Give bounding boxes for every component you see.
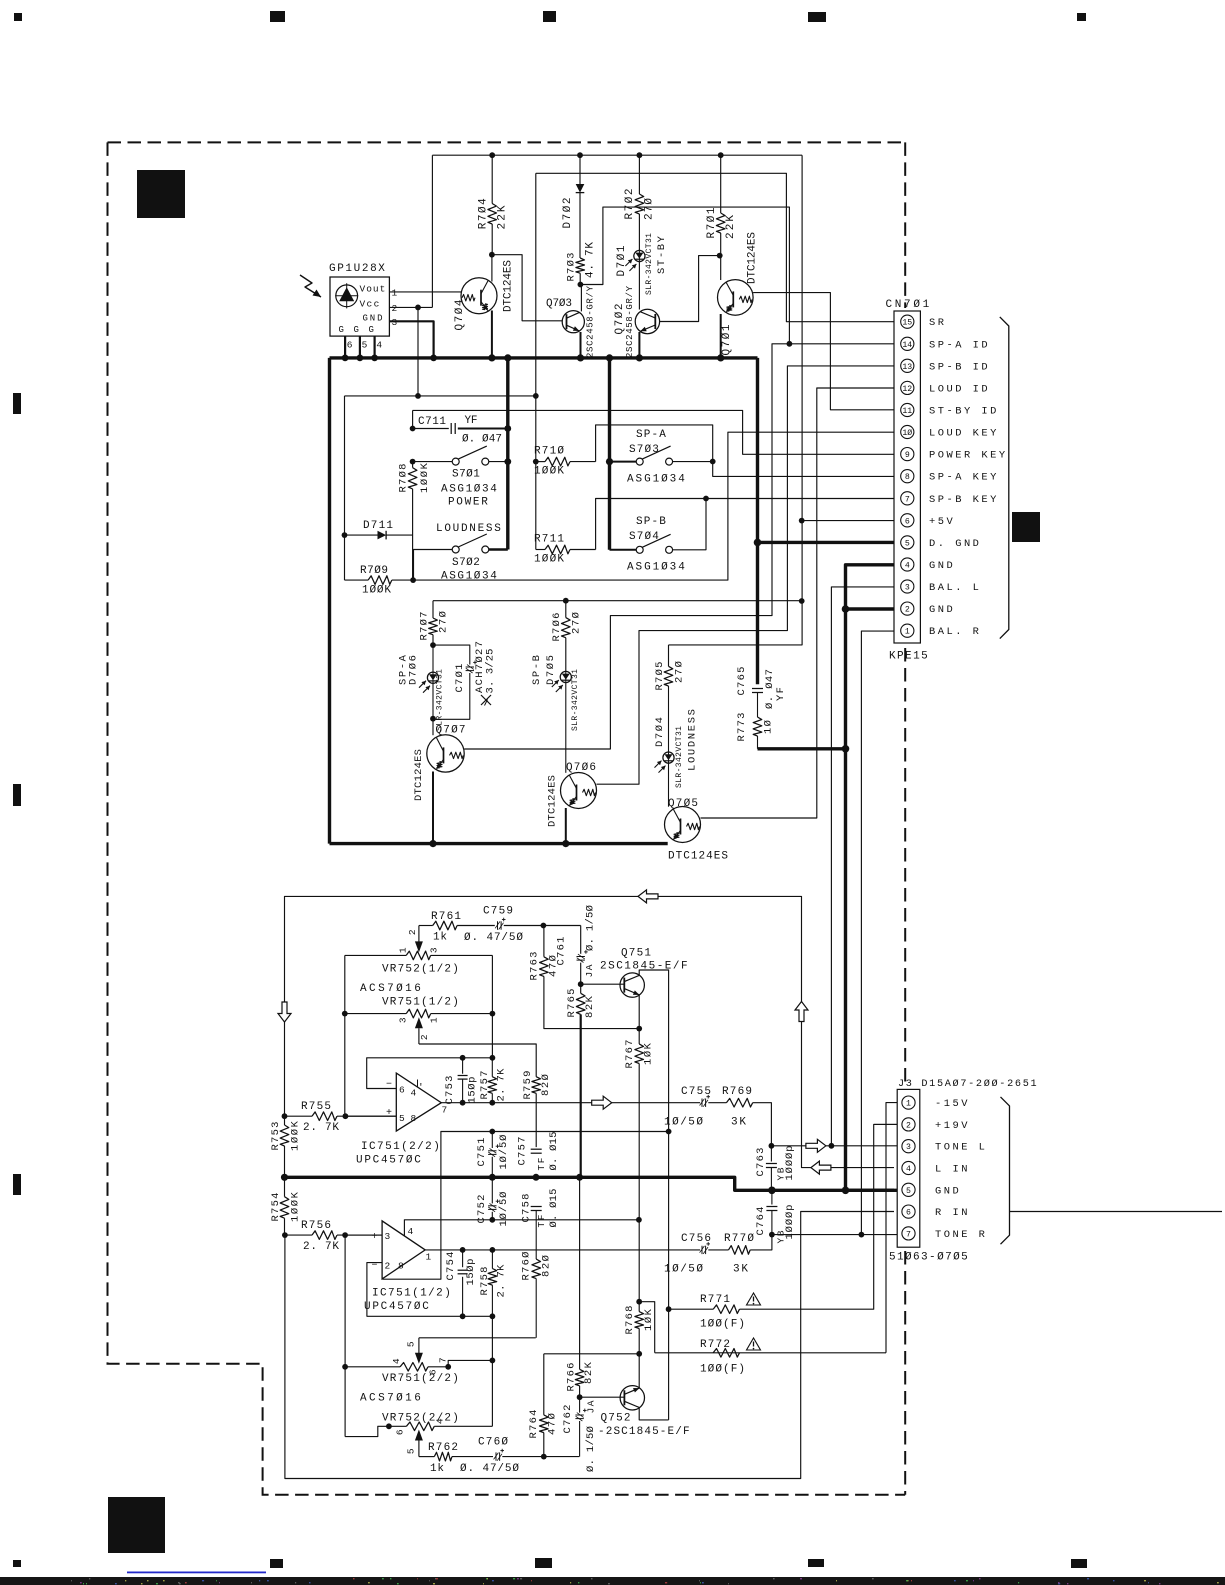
svg-text:47Ø: 47Ø — [547, 1413, 559, 1435]
svg-text:1ØØK: 1ØØK — [289, 1191, 301, 1222]
svg-text:Q7Ø4: Q7Ø4 — [454, 299, 466, 330]
resistor R771 100(F) fusible — [666, 1306, 672, 1312]
svg-text:C76Ø: C76Ø — [478, 1437, 509, 1449]
svg-text:R755: R755 — [301, 1101, 332, 1113]
potentiometer VR751(2/2) ACS7016 — [344, 1235, 346, 1437]
svg-text:82K: 82K — [583, 1361, 595, 1384]
arrow L IN left — [638, 890, 658, 903]
wire CN701 pin2 GND (thick) — [846, 607, 895, 610]
J3 cable bracket — [1001, 1097, 1010, 1244]
svg-text:KPE15: KPE15 — [889, 651, 929, 663]
svg-text:Vcc: Vcc — [360, 299, 380, 310]
wire -15V row left (C760 node to Q752 emitter) — [544, 1353, 639, 1355]
svg-text:27Ø: 27Ø — [674, 661, 686, 683]
svg-text:51Ø63-Ø7Ø5: 51Ø63-Ø7Ø5 — [889, 1252, 969, 1264]
wire +5V to CN701 pin6 (vertical x=802) — [669, 155, 803, 645]
capacitor C755 10/50 — [701, 1099, 703, 1107]
svg-text:ASG1Ø34: ASG1Ø34 — [441, 484, 498, 496]
svg-text:Ø. 47/5Ø: Ø. 47/5Ø — [460, 1463, 520, 1475]
svg-text:SP-B: SP-B — [531, 655, 543, 685]
wire analog GND bus (lower) — [285, 1177, 895, 1190]
svg-text:2: 2 — [407, 929, 418, 935]
resistor R760 820 — [532, 1259, 541, 1279]
wire TONE L row to J3 pin3 — [771, 1145, 897, 1147]
svg-text:6: 6 — [347, 340, 353, 351]
svg-text:4. 7K: 4. 7K — [585, 242, 597, 278]
wire SR net: Vcc pullup to CN701 pin15 — [536, 173, 894, 321]
resistor R757 2.7K — [491, 1058, 493, 1077]
svg-text:Q7Ø7: Q7Ø7 — [436, 725, 467, 737]
wire J3 pin5 GND thick — [846, 1189, 898, 1192]
node cross-couple y=1219.9 — [636, 1217, 642, 1223]
wire pot right rail — [491, 955, 493, 1057]
switch S704 ASG1034 SP-B — [610, 549, 637, 551]
wire rail x=492.4 down to VR752(2/2) — [491, 1316, 493, 1426]
svg-text:Q7Ø1: Q7Ø1 — [721, 324, 733, 355]
svg-text:GND: GND — [935, 1185, 961, 1197]
svg-text:82Ø: 82Ø — [540, 1074, 552, 1096]
svg-text:R768: R768 — [624, 1306, 636, 1335]
svg-text:R769: R769 — [722, 1086, 753, 1098]
svg-text:Vout: Vout — [360, 284, 386, 295]
arrow L IN up — [795, 1002, 808, 1022]
light-in arrow — [300, 275, 321, 297]
resistor R772 100(F) fusible — [713, 1349, 739, 1358]
svg-text:VR752(1/2): VR752(1/2) — [382, 964, 460, 976]
svg-text:LOUDNESS: LOUDNESS — [436, 523, 502, 535]
svg-text:8: 8 — [411, 1113, 417, 1124]
wire TONE R row to J3 pin7 — [772, 1234, 897, 1236]
svg-text:C756: C756 — [681, 1233, 712, 1245]
svg-text:S7Ø2: S7Ø2 — [452, 557, 481, 569]
svg-text:R7Ø3: R7Ø3 — [566, 253, 578, 282]
svg-text:+5V: +5V — [929, 516, 955, 528]
resistor R767 10K — [638, 1029, 640, 1044]
capacitor C761 0.1/50 JA — [580, 926, 582, 954]
svg-text:LOUDNESS: LOUDNESS — [686, 709, 698, 771]
svg-text:3: 3 — [905, 584, 910, 593]
svg-text:S7Ø4: S7Ø4 — [629, 531, 660, 543]
node L IN / R755 / R753 — [282, 1113, 288, 1119]
svg-text:11: 11 — [902, 407, 912, 416]
connector CN701 KPE15 — [894, 311, 920, 643]
svg-text:C711: C711 — [418, 416, 447, 428]
svg-text:3K: 3K — [733, 1264, 749, 1276]
photo IC GP1U28X — [330, 277, 389, 336]
capacitor C753 150p — [462, 1058, 464, 1074]
arrow TONE L out — [806, 1139, 826, 1152]
wire op2 pin8 V- loop via y=1131.5 — [383, 1132, 669, 1280]
LED D705 SP-B — [560, 671, 571, 682]
svg-text:2: 2 — [906, 1121, 911, 1130]
svg-text:27Ø: 27Ø — [438, 611, 450, 633]
svg-text:2. 7K: 2. 7K — [496, 1264, 508, 1298]
svg-text:6: 6 — [399, 1085, 405, 1096]
svg-text:ASG1Ø34: ASG1Ø34 — [441, 571, 498, 583]
potentiometer VR751(1/2) — [345, 1013, 406, 1015]
svg-text:Ø. Ø15: Ø. Ø15 — [548, 1189, 560, 1228]
svg-text:1ØØK: 1ØØK — [419, 462, 431, 493]
resistor R763 470 — [543, 926, 545, 957]
potentiometer VR752(1/2) ACS7016 — [345, 954, 406, 956]
svg-text:5: 5 — [399, 1113, 405, 1124]
svg-text:C764: C764 — [755, 1207, 767, 1236]
svg-text:Q751: Q751 — [621, 948, 652, 960]
CN701 cable bracket — [1000, 317, 1009, 639]
svg-text:G: G — [369, 325, 375, 335]
svg-text:G: G — [354, 325, 360, 335]
svg-text:7: 7 — [905, 495, 910, 504]
svg-text:15: 15 — [902, 319, 912, 328]
resistor R758 2.7K — [491, 1250, 493, 1269]
wire L IN loop (J3 pin4 to R755) — [285, 896, 895, 1167]
registration square bottom-left — [108, 1497, 165, 1553]
svg-text:8: 8 — [905, 473, 910, 482]
svg-text:-2SC1845-E/F: -2SC1845-E/F — [598, 1426, 690, 1438]
registration square top-left — [137, 170, 185, 218]
svg-text:R757: R757 — [479, 1071, 491, 1100]
svg-text:14: 14 — [902, 341, 912, 350]
wire GP1U28X pin3 GND — [389, 321, 433, 358]
LED D706 SP-A — [432, 645, 434, 672]
svg-text:ASG1Ø34: ASG1Ø34 — [627, 562, 686, 574]
resistor R754 100K — [284, 1177, 286, 1196]
svg-text:Q7Ø3: Q7Ø3 — [546, 298, 573, 310]
wire Q706 base to CN701 pin13 SP-B ID — [597, 366, 895, 784]
svg-text:1: 1 — [392, 288, 398, 299]
wire Q751 collector to rail x=668.6 — [639, 970, 668, 1420]
svg-text:TONE L: TONE L — [935, 1142, 987, 1154]
svg-text:7: 7 — [906, 1230, 911, 1239]
svg-text:5: 5 — [905, 539, 910, 548]
svg-text:D7Ø6: D7Ø6 — [407, 655, 419, 685]
wire S701 row to POWER KEY (pin9) — [412, 410, 414, 428]
LED D704 LOUDNESS — [663, 752, 674, 763]
transistor Q705 DTC124ES — [665, 807, 701, 843]
svg-text:R753: R753 — [270, 1122, 282, 1151]
svg-text:5: 5 — [362, 340, 368, 351]
wire x=418 Vcc drop — [417, 307, 419, 396]
switch S702 ASG1034 LOUDNESS — [414, 550, 453, 581]
svg-text:TONE R: TONE R — [935, 1229, 987, 1241]
wire +5V feed to LED resistors y=600.5 — [433, 600, 802, 602]
node R767 top — [636, 1026, 642, 1032]
node Q704 collector / R704 — [489, 252, 495, 258]
svg-text:ST-BY ID: ST-BY ID — [929, 406, 999, 418]
wire J3 pin2 +19V — [874, 1123, 898, 1125]
svg-text:4: 4 — [411, 1088, 417, 1099]
svg-text:C7Ø1: C7Ø1 — [454, 664, 466, 693]
resistor R703 4.7K — [576, 258, 585, 273]
svg-text:': ' — [418, 1082, 424, 1093]
wire SP-A/SP-B switch common x=609.5 — [608, 358, 611, 550]
svg-text:SLR-342VCT31: SLR-342VCT31 — [571, 669, 580, 731]
svg-text:TF: TF — [536, 1157, 547, 1170]
wire left branch to D711/R709 — [344, 396, 346, 580]
blue underline — [127, 1572, 266, 1574]
svg-text:DTC124ES: DTC124ES — [546, 775, 558, 827]
transistor Q706 DTC124ES — [561, 773, 597, 809]
svg-text:C759: C759 — [483, 906, 514, 918]
wire R704/Q704 to Q703 base — [492, 255, 562, 321]
svg-text:1ØØK: 1ØØK — [362, 585, 392, 597]
resistor R711 100K — [536, 549, 545, 551]
wire R773 to analog GND rail — [758, 747, 846, 750]
svg-text:-15V: -15V — [935, 1098, 970, 1110]
svg-text:22K: 22K — [497, 205, 509, 229]
svg-text:GND: GND — [929, 560, 955, 572]
resistor R710 100K — [536, 461, 545, 463]
wire R711 to S704 right / pin7 SP-B KEY — [596, 499, 894, 550]
node R707/D706/C701 — [430, 642, 436, 648]
svg-text:DTC124ES: DTC124ES — [668, 851, 729, 863]
transistor Q702 2SC2458-GR/Y — [638, 262, 640, 310]
svg-text:R756: R756 — [301, 1220, 332, 1232]
svg-text:6: 6 — [906, 1209, 911, 1218]
resistor R708 100K — [412, 462, 414, 468]
resistor R765 82K — [576, 993, 585, 1014]
resistor R702 270 (ST-BY LED) — [638, 155, 640, 194]
svg-text:1Ø/5Ø: 1Ø/5Ø — [664, 1117, 704, 1129]
resistor R707 270 — [432, 601, 434, 618]
wire feedback row to pot rail — [463, 1057, 493, 1059]
wire from J3 bracket to right edge — [1010, 1211, 1223, 1213]
resistor R764 470 — [543, 1354, 545, 1415]
node R IN / R756 / R754 — [282, 1232, 288, 1238]
svg-text:+: + — [372, 1232, 379, 1243]
svg-text:1Ø: 1Ø — [763, 720, 775, 734]
capacitor C751 10/50 — [491, 1132, 493, 1149]
resistor R762 1k — [419, 1456, 434, 1458]
svg-text:LOUD ID: LOUD ID — [929, 383, 990, 395]
svg-text:13: 13 — [902, 363, 912, 372]
svg-text:2SC1845-E/F: 2SC1845-E/F — [600, 961, 688, 973]
svg-text:3: 3 — [385, 1231, 391, 1242]
wire Q752 emitter up to -15V node — [638, 1354, 640, 1388]
svg-text:BAL. R: BAL. R — [929, 626, 981, 638]
svg-text:SP-A KEY: SP-A KEY — [929, 472, 999, 484]
wire Q705 base to CN701 pin12 LOUD ID — [701, 388, 895, 818]
svg-text:1: 1 — [906, 1100, 911, 1109]
svg-text:Ø. Ø47: Ø. Ø47 — [462, 434, 503, 446]
svg-text:3: 3 — [429, 947, 440, 953]
svg-text:BAL. L: BAL. L — [929, 582, 981, 594]
svg-text:R7Ø6: R7Ø6 — [551, 613, 563, 642]
svg-text:R759: R759 — [522, 1071, 534, 1100]
wire VR751(2/2) wiper row to C758 — [419, 1337, 536, 1339]
capacitor C765 0.047 YF — [752, 688, 763, 690]
resistor R759 820 — [532, 1077, 541, 1094]
svg-text:4: 4 — [905, 562, 910, 571]
capacitor C754 150p — [462, 1250, 464, 1267]
svg-text:R762: R762 — [428, 1442, 459, 1454]
svg-text:9: 9 — [905, 451, 910, 460]
svg-text:82K: 82K — [584, 995, 596, 1018]
svg-text:LOUD KEY: LOUD KEY — [929, 428, 999, 440]
capacitor C752 10/50 — [491, 1177, 493, 1203]
svg-text:Ø. Ø47: Ø. Ø47 — [764, 669, 776, 709]
svg-text:R7Ø1: R7Ø1 — [706, 207, 718, 238]
node D706/Q707 collector — [430, 716, 436, 722]
svg-text:4: 4 — [408, 1226, 414, 1237]
svg-text:2: 2 — [419, 1034, 430, 1040]
svg-text:SLR-342VCT31: SLR-342VCT31 — [675, 726, 684, 788]
wire R710 to S703 right / pin8 SP-A KEY — [596, 425, 894, 477]
wire -15V row right (to R772) — [655, 1352, 886, 1354]
svg-text:C754: C754 — [445, 1252, 457, 1281]
svg-text:5: 5 — [406, 1341, 417, 1347]
wire Q751 emitter to R767 — [638, 995, 640, 1029]
diode D711 — [345, 534, 378, 536]
svg-text:SLR-342VCT31: SLR-342VCT31 — [436, 669, 445, 731]
svg-text:SP-A ID: SP-A ID — [929, 339, 990, 351]
svg-text:Q7Ø6: Q7Ø6 — [566, 762, 597, 774]
svg-text:CN7Ø1: CN7Ø1 — [886, 299, 931, 311]
svg-text:C751: C751 — [476, 1138, 488, 1167]
svg-text:1: 1 — [429, 1017, 440, 1023]
wire vertical x=535.8 (Vcc pullup rail) — [535, 173, 537, 549]
svg-text:IC751(1/2): IC751(1/2) — [372, 1288, 452, 1300]
svg-text:1ØØK: 1ØØK — [289, 1120, 301, 1151]
arrow L IN down — [278, 1002, 291, 1022]
svg-text:R765: R765 — [566, 989, 578, 1018]
wire D.GND rail to CN701 pin5 and C765 — [756, 358, 759, 684]
svg-text:R773: R773 — [736, 713, 748, 742]
svg-text:R76Ø: R76Ø — [521, 1252, 533, 1281]
svg-text:1Ø: 1Ø — [902, 428, 912, 438]
svg-text:VR752(2/2): VR752(2/2) — [382, 1413, 460, 1425]
arrow L IN in — [811, 1161, 831, 1174]
svg-text:2SC2458-GR/Y: 2SC2458-GR/Y — [625, 285, 635, 358]
wire Q752 collector to rail — [639, 1407, 668, 1420]
svg-text:R IN: R IN — [935, 1207, 970, 1219]
svg-text:1k: 1k — [430, 1463, 445, 1475]
wire GP1U28X pin2 Vcc — [389, 306, 432, 308]
svg-text:D7Ø5: D7Ø5 — [545, 655, 557, 685]
svg-text:3: 3 — [398, 1017, 409, 1023]
wire left rail down to lower bus — [328, 358, 331, 844]
resistor R755 2.7K — [285, 1115, 313, 1117]
LED D701 SLR-342VCT31 ST-BY — [634, 250, 645, 261]
wire CN701 pin6 +5V — [802, 520, 894, 522]
capacitor C756 10/50 — [701, 1246, 703, 1254]
resistor R773 10 — [753, 717, 762, 736]
transistor Q701 DTC124ES — [720, 256, 722, 280]
svg-text:+19V: +19V — [935, 1120, 970, 1132]
wire upper ground bus — [330, 356, 758, 359]
svg-text:C765: C765 — [736, 667, 748, 696]
switch S701 ASG1034 POWER — [413, 461, 453, 463]
wire pot left rail — [344, 955, 346, 1116]
svg-text:1ØØØp: 1ØØØp — [784, 1146, 796, 1181]
wire R772 to J3 pin1 -15V — [886, 1103, 897, 1353]
wire LOUD KEY net to CN701 pin10 — [413, 432, 894, 580]
resistor R770 3K — [729, 1246, 751, 1255]
svg-text:7: 7 — [438, 1357, 449, 1363]
svg-text:R7Ø9: R7Ø9 — [360, 565, 389, 577]
svg-text:R7Ø5: R7Ø5 — [654, 662, 666, 691]
svg-text:SP-B: SP-B — [636, 516, 667, 528]
wire R703 junction to SP-A ID column — [580, 207, 789, 344]
svg-text:R763: R763 — [529, 952, 541, 981]
svg-text:7: 7 — [442, 1104, 448, 1115]
svg-text:YF: YF — [465, 415, 479, 427]
resistor R768 10K — [636, 1299, 642, 1305]
svg-text:D711: D711 — [363, 520, 394, 532]
svg-text:SLR-342VCT31: SLR-342VCT31 — [645, 233, 654, 295]
svg-text:UPC457ØC: UPC457ØC — [356, 1155, 422, 1167]
svg-text:S7Ø1: S7Ø1 — [452, 469, 481, 481]
svg-text:2. 7K: 2. 7K — [303, 1122, 340, 1134]
transistor Q752 -2SC1845-E/F — [580, 1396, 625, 1398]
node R703/Q703 collector — [578, 282, 584, 288]
svg-text:2: 2 — [905, 606, 910, 615]
wire CN701 pin4 GND (thick) — [846, 565, 895, 749]
svg-text:1ØØK: 1ØØK — [534, 466, 565, 478]
resistor R709 100K — [368, 576, 392, 585]
op-amp IC751(1/2) UPC4570C — [382, 1221, 425, 1279]
svg-text:R754: R754 — [270, 1193, 282, 1222]
wire GP1U28X pin1 Vout to Q704 base — [389, 291, 461, 293]
svg-text:C763: C763 — [755, 1148, 767, 1177]
svg-text:1ØØK: 1ØØK — [534, 554, 565, 566]
svg-text:GND: GND — [363, 314, 383, 324]
svg-text:C762: C762 — [562, 1405, 574, 1434]
svg-text:C755: C755 — [681, 1086, 712, 1098]
svg-text:JA: JA — [584, 964, 595, 977]
capacitor C763 YB 1000p — [770, 1146, 772, 1162]
svg-text:+: + — [386, 1108, 393, 1119]
svg-text:SR: SR — [929, 317, 946, 329]
svg-text:Ø. Ø15: Ø. Ø15 — [548, 1132, 560, 1171]
svg-text:D. GND: D. GND — [929, 538, 981, 550]
node C759/R763 — [541, 923, 547, 929]
svg-text:R77Ø: R77Ø — [724, 1233, 755, 1245]
svg-text:R761: R761 — [431, 911, 462, 923]
svg-text:GP1U28X: GP1U28X — [329, 263, 386, 275]
transistor Q703 2SC2458-GR/Y — [562, 311, 584, 333]
svg-text:R772: R772 — [700, 1339, 731, 1351]
svg-text:3: 3 — [392, 317, 398, 328]
svg-text:Ø. 1/5Ø: Ø. 1/5Ø — [585, 905, 597, 951]
svg-text:SP-A: SP-A — [636, 429, 667, 441]
svg-text:5: 5 — [406, 1448, 417, 1454]
capacitor C759 0.47/50 — [497, 921, 499, 929]
svg-text:C757: C757 — [516, 1137, 528, 1166]
dashed border frame — [108, 141, 906, 143]
svg-text:1k: 1k — [433, 932, 448, 944]
svg-text:G: G — [339, 325, 345, 335]
svg-text:2: 2 — [385, 1260, 391, 1271]
svg-text:R7Ø2: R7Ø2 — [624, 189, 636, 220]
resistor R756 2.7K — [285, 1234, 312, 1236]
svg-text:1Ø/5Ø: 1Ø/5Ø — [664, 1264, 704, 1276]
op-amp IC751(2/2) UPC4570C — [396, 1073, 441, 1131]
svg-text:6: 6 — [905, 517, 910, 526]
svg-text:L IN: L IN — [935, 1164, 970, 1176]
svg-text:J3 D15AØ7-2ØØ-2651: J3 D15AØ7-2ØØ-2651 — [898, 1078, 1038, 1090]
node R701/Q701 collector/Q702 base — [717, 253, 723, 259]
wire op1 output row — [441, 1102, 700, 1104]
svg-text:ST-BY: ST-BY — [656, 235, 668, 274]
svg-text:8: 8 — [398, 1260, 404, 1271]
wire op1 -in feedback — [367, 1058, 463, 1089]
svg-text:15Øp: 15Øp — [465, 1259, 477, 1286]
bottom scan noise bar — [0, 1577, 1225, 1585]
transistor Q704 DTC124ES — [461, 278, 497, 314]
svg-text:4: 4 — [906, 1165, 911, 1174]
svg-text:R758: R758 — [479, 1267, 491, 1296]
